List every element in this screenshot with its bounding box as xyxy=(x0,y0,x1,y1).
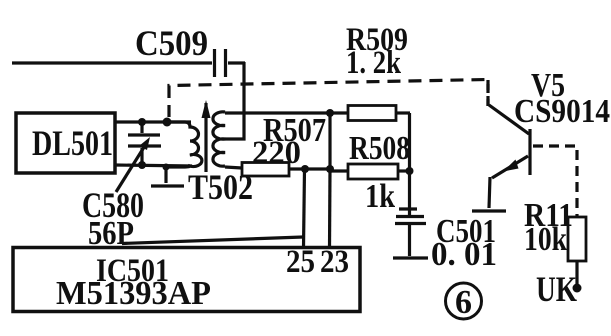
wire DL501 bottom lead xyxy=(115,165,192,166)
svg-text:10k: 10k xyxy=(524,221,567,258)
node center junction xyxy=(326,165,334,173)
wire pin 25 xyxy=(304,169,305,248)
node dashed tap on coil top xyxy=(163,118,172,127)
block IC501 xyxy=(13,248,360,313)
node UK terminal xyxy=(573,284,582,293)
svg-text:1k: 1k xyxy=(365,178,395,215)
transformer T502 secondary winding xyxy=(213,112,225,166)
svg-text:220: 220 xyxy=(252,135,301,171)
resistor R508 xyxy=(330,130,410,215)
resistor R509 body xyxy=(348,106,410,121)
node pin25 tap xyxy=(301,165,309,173)
wire ground branch T502 xyxy=(164,167,167,183)
svg-text:6: 6 xyxy=(455,284,472,321)
node R508 right xyxy=(406,167,414,175)
wire stray top edge of IC box xyxy=(122,237,303,244)
ground C501 xyxy=(393,256,428,259)
svg-text:C509: C509 xyxy=(135,23,208,63)
wire right vertical R509/R508 to C501 xyxy=(408,113,411,215)
resistor R11 xyxy=(524,197,586,284)
wire junction vertical xyxy=(328,113,331,169)
ground V5 emitter xyxy=(472,209,506,212)
block DL501 xyxy=(16,113,115,173)
node C580 bottom xyxy=(138,161,146,169)
svg-text:25: 25 xyxy=(286,244,315,280)
wire C509 to corner xyxy=(228,61,245,64)
transformer T502 primary winding xyxy=(164,122,202,167)
wire secondary bottom to R507 xyxy=(225,167,242,168)
wire input left xyxy=(12,61,212,64)
svg-text:R508: R508 xyxy=(349,130,410,167)
resistor R507 xyxy=(242,112,326,176)
svg-text:DL501: DL501 xyxy=(32,123,113,163)
pin 25 xyxy=(286,244,315,280)
resistor R509 label xyxy=(346,22,408,81)
wire vertical from C509 down to coil tap xyxy=(225,62,244,139)
svg-text:M51393AP: M51393AP xyxy=(56,275,211,312)
wire secondary top to R509 xyxy=(225,111,348,114)
svg-text:CS9014: CS9014 xyxy=(514,93,610,130)
transistor V5 xyxy=(489,67,610,208)
svg-text:1. 2k: 1. 2k xyxy=(346,45,402,81)
node circled 6 xyxy=(446,283,482,321)
ground T502 xyxy=(151,184,184,187)
wire pin 23 xyxy=(328,169,332,248)
wire R507 right lead xyxy=(289,167,330,170)
svg-text:0. 01: 0. 01 xyxy=(431,236,497,273)
wire dashed base to R11 xyxy=(533,146,577,217)
wire dashed feedback line xyxy=(169,80,488,118)
svg-text:23: 23 xyxy=(320,244,349,280)
transistor V5 collector dashed entry xyxy=(486,84,489,106)
capacitor C501 xyxy=(395,209,497,273)
capacitor C509 xyxy=(135,23,226,77)
transformer T502 core arrow xyxy=(202,100,211,172)
node C580 top xyxy=(138,118,146,126)
label T502 xyxy=(188,167,253,207)
node top wire junction xyxy=(326,109,334,117)
pin 23 xyxy=(320,244,349,280)
svg-text:UK: UK xyxy=(536,269,577,309)
label UK xyxy=(536,269,577,309)
node ground branch xyxy=(163,164,170,171)
capacitor C580 trimmer xyxy=(82,122,161,252)
wire DL501 top lead xyxy=(115,120,191,123)
